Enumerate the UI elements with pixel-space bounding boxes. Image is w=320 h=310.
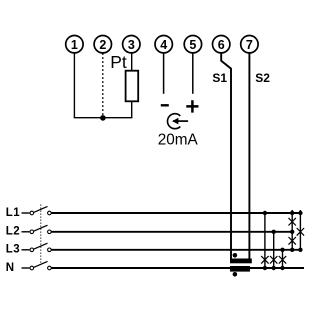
- svg-text:7: 7: [246, 38, 253, 52]
- terminal circle 3: [123, 36, 140, 53]
- svg-text:N: N: [6, 262, 14, 274]
- svg-text:L3: L3: [6, 244, 20, 256]
- voltage tap A wire: [264, 213, 266, 269]
- fuse X on A: [261, 256, 268, 264]
- junction node sensor: [100, 115, 106, 121]
- terminal circle 6: [213, 36, 230, 53]
- svg-text:4: 4: [160, 38, 167, 52]
- node D L1: [290, 211, 294, 215]
- voltage tap C wire: [282, 250, 284, 269]
- polarity dot bottom: [233, 272, 238, 277]
- label plus: [186, 100, 198, 112]
- svg-text:1: 1: [71, 38, 78, 52]
- wire L2 line: [52, 231, 293, 233]
- svg-text:L1: L1: [6, 207, 20, 219]
- terminal circle 2: [94, 36, 111, 53]
- wire S1 from terminal 6: [221, 53, 231, 259]
- svg-text:S1: S1: [212, 71, 227, 85]
- terminal circle 5: [184, 36, 201, 53]
- switch linkage dashed: [40, 205, 42, 265]
- fuse X on E: [297, 228, 304, 236]
- node A bottom: [263, 266, 267, 270]
- wire terminal1 down: [73, 53, 75, 118]
- node D L2: [290, 230, 294, 234]
- wire resistor bottom: [131, 101, 133, 117]
- switch L2: [22, 225, 52, 233]
- node D L3: [290, 248, 294, 252]
- fuse X on B: [270, 256, 277, 264]
- svg-text:S2: S2: [255, 71, 270, 85]
- wire terminal4 down: [163, 53, 165, 94]
- fuse X on D upper: [289, 218, 296, 226]
- switch L3: [22, 243, 52, 251]
- current loop arrow: [173, 120, 188, 122]
- polarity dot top: [233, 253, 238, 258]
- svg-text:Pt: Pt: [110, 52, 127, 72]
- fuse X on D lower: [289, 237, 296, 245]
- node B bottom: [272, 266, 276, 270]
- svg-text:6: 6: [218, 38, 225, 52]
- wire S2 from terminal 7: [248, 53, 250, 259]
- link E wire: [299, 210, 301, 252]
- svg-text:L2: L2: [6, 226, 20, 238]
- node E L3: [298, 248, 302, 252]
- node C top: [280, 248, 284, 252]
- wire terminal5 down: [192, 53, 194, 94]
- switch N: [22, 261, 52, 269]
- wire bottom horizontal sensor: [74, 117, 133, 119]
- node A top: [263, 211, 267, 215]
- terminal circle 7: [241, 36, 258, 53]
- current transformer secondary bar: [230, 259, 252, 264]
- voltage tap B wire: [273, 232, 275, 269]
- wire N line: [52, 267, 305, 269]
- switch L1: [22, 206, 52, 214]
- link D wire: [291, 210, 293, 252]
- wire terminal2 dotted: [102, 54, 104, 116]
- svg-text:3: 3: [128, 38, 135, 52]
- resistor Pt sensor body: [126, 71, 139, 102]
- wire L3 line: [52, 249, 303, 251]
- terminal circle 1: [66, 36, 83, 53]
- terminal circle 4: [155, 36, 172, 53]
- label minus: [161, 104, 169, 106]
- current transformer primary bar: [230, 266, 250, 272]
- wire terminal3 down: [131, 53, 133, 71]
- wire L1 line: [52, 212, 303, 214]
- fuse X on C: [279, 256, 286, 264]
- node C bottom: [280, 266, 284, 270]
- current loop symbol circle: [167, 114, 180, 129]
- node B top: [272, 230, 276, 234]
- svg-text:20mA: 20mA: [158, 132, 199, 149]
- svg-text:2: 2: [99, 38, 106, 52]
- svg-text:5: 5: [189, 38, 196, 52]
- node E L1: [298, 211, 302, 215]
